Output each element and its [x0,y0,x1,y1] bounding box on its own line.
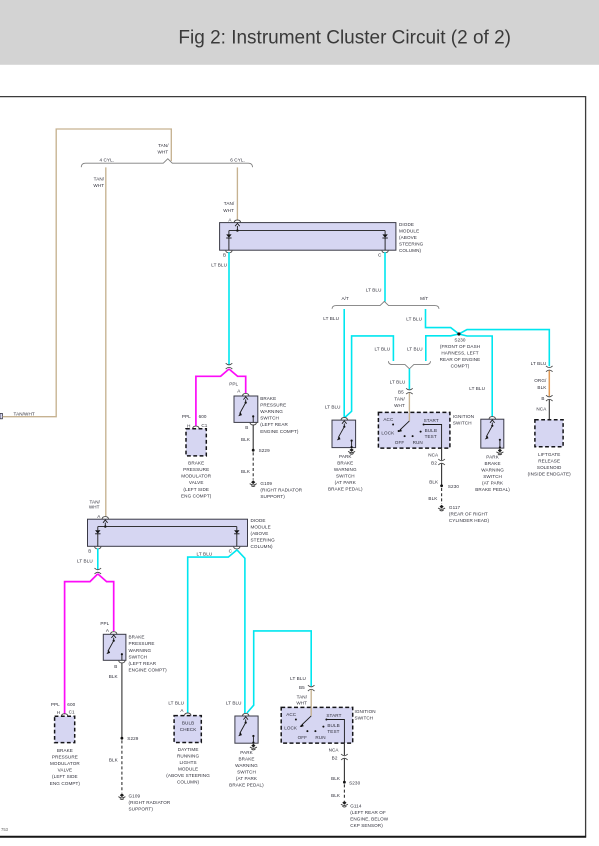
svg-text:BLK: BLK [331,793,341,798]
svg-text:Fig 2: Instrument Cluster Circ: Fig 2: Instrument Cluster Circuit (2 of … [178,27,511,48]
wire LT BLU from park switch junction to merge brace left leg [345,336,394,418]
svg-text:G109: G109 [129,793,141,798]
svg-text:B: B [541,396,544,401]
wire TAN/WHT into ignition switch 2 [296,690,311,708]
wire LT BLU A/T drop to park brake warning switch 1 [323,309,344,417]
wire TAN/WHT 6-cyl drop to diode module 1 pin A [223,167,237,219]
svg-text:(AT PARK: (AT PARK [482,480,504,485]
svg-text:MODULE: MODULE [251,525,271,530]
svg-text:BRAKE PEDAL): BRAKE PEDAL) [229,783,264,788]
svg-text:NCA: NCA [536,407,547,412]
svg-text:MODULE: MODULE [399,228,419,233]
svg-text:BRAKE: BRAKE [57,748,73,753]
wire from ignition switch 1 to connector B2 [428,448,441,460]
ground at park brake warning switch 1 [348,448,355,454]
wire BLK from BPWS1 pin B to splice S229 [241,425,253,450]
svg-text:PPL: PPL [182,414,191,419]
diode D1 (left leg of diode module U1) [223,234,232,257]
connector C200 inline on pin B wire [226,363,233,369]
connector B5 (ignition switch 2) [299,685,315,691]
svg-text:6 CYL.: 6 CYL. [230,157,245,162]
svg-text:(LEFT SIDE: (LEFT SIDE [52,774,78,779]
svg-text:WHT: WHT [93,183,104,188]
svg-text:BULB: BULB [425,428,437,433]
svg-text:TAN/: TAN/ [394,397,405,402]
svg-text:BLK: BLK [241,469,251,474]
svg-text:SUPPORT): SUPPORT) [129,806,154,811]
switch: park brake warning switch 3 [235,713,258,743]
svg-text:A: A [97,514,101,519]
svg-text:B: B [88,548,91,553]
connector B5 (ignition switch 1) [398,388,413,394]
svg-text:BRAKE: BRAKE [188,460,204,465]
svg-text:B5: B5 [299,685,305,690]
svg-text:S230: S230 [454,338,465,343]
node: 4CYL/6CYL option brace [81,157,252,167]
svg-text:OFF: OFF [395,440,405,445]
node: merge brace to ignition switch 1 [388,361,430,369]
wire LT BLU from U2 pin C to park brake warning switch 3 [226,550,245,714]
switch: park brake warning switch 1 [332,418,356,449]
label: diode module U1 name [399,222,424,253]
switch: ignition switch 2 [281,707,353,743]
svg-text:PRESSURE: PRESSURE [183,467,209,472]
svg-text:OFF: OFF [298,735,308,740]
svg-text:B: B [245,425,248,430]
svg-text:(REAR OF RIGHT: (REAR OF RIGHT [449,512,488,517]
svg-text:REAR OF ENGINE: REAR OF ENGINE [440,357,481,362]
diode D4 (right leg of diode module U2) [229,530,241,553]
svg-text:S230: S230 [349,780,360,785]
svg-text:WARNING: WARNING [260,409,283,414]
valve: brake pressure modulator valve 2 [50,714,81,786]
svg-text:LT BLU: LT BLU [290,676,306,681]
svg-text:LT BLU: LT BLU [531,361,547,366]
svg-text:BRAKE PEDAL): BRAKE PEDAL) [475,487,510,492]
svg-text:BULB: BULB [182,721,194,726]
svg-text:DAYTIME: DAYTIME [178,747,199,752]
svg-text:ENG COMPT): ENG COMPT) [181,493,212,498]
svg-text:RUN: RUN [315,735,325,740]
svg-text:A/T: A/T [341,296,349,301]
svg-text:WARNING: WARNING [235,763,258,768]
switch: park brake warning switch 2 [481,417,504,449]
svg-text:LT BLU: LT BLU [390,380,406,385]
svg-text:CKP SENSOR): CKP SENSOR) [350,823,383,828]
wire ORG/BLK segment [534,371,549,397]
svg-text:B: B [114,664,117,669]
ground G109 (2) [118,793,171,811]
wire BLK into liftgate release solenoid [548,400,550,420]
ground G117 [438,505,489,523]
svg-text:B5: B5 [398,389,404,394]
svg-text:IGNITION: IGNITION [453,414,474,419]
svg-text:(LEFT REAR: (LEFT REAR [260,422,288,427]
svg-text:LIFTGATE: LIFTGATE [538,452,560,457]
solenoid: liftgate release solenoid [528,420,571,477]
svg-text:SWITCH: SWITCH [237,770,256,775]
svg-text:PRESSURE: PRESSURE [260,402,286,407]
svg-text:H: H [57,710,60,715]
ground at park brake warning switch 3 [250,744,257,750]
svg-text:G114: G114 [350,804,362,809]
wire BLK from B2 to splice S230 (2) [331,759,344,783]
svg-text:S229: S229 [259,448,270,453]
module: daytime running lights module [166,713,210,785]
svg-text:START: START [326,713,341,718]
node S229 [252,448,270,453]
svg-text:NCA: NCA [329,747,340,752]
label: park brake warning switch 1 name [328,454,363,492]
op: diode module U1 (above steering column) [220,217,396,250]
node S230 (ground splice) [440,484,459,489]
wire BLK from S230 to ground G114 [331,784,344,800]
node S229 (2) [121,736,139,741]
svg-text:TAN/WHT: TAN/WHT [14,411,35,416]
svg-text:COMPT): COMPT) [451,364,470,369]
svg-text:LOCK: LOCK [381,431,395,436]
ground G109 [250,480,303,499]
svg-text:(INSIDE ENDGATE): (INSIDE ENDGATE) [528,472,571,477]
svg-text:A: A [180,708,184,713]
svg-text:PRESSURE: PRESSURE [129,641,155,646]
svg-text:COLUMN): COLUMN) [399,248,422,253]
wire LT BLU from U2 pin B down [77,548,98,569]
svg-text:S229: S229 [127,736,138,741]
wire LT BLU from U1 pin C to A/T-M/T brace [366,252,385,301]
svg-text:ACC: ACC [383,417,394,422]
svg-text:600: 600 [67,702,75,707]
svg-text:WHT: WHT [158,150,169,155]
svg-text:BRAKE PEDAL): BRAKE PEDAL) [328,487,363,492]
svg-text:BRAKE: BRAKE [129,635,145,640]
svg-text:(RIGHT RADIATOR: (RIGHT RADIATOR [260,488,302,493]
svg-text:DIODE: DIODE [399,222,414,227]
diode D2 (right leg of diode module U1) [378,234,388,257]
svg-text:IGNITION: IGNITION [355,709,376,714]
svg-text:BLK: BLK [537,385,547,390]
svg-text:VALVE: VALVE [58,768,73,773]
svg-text:BLK: BLK [241,437,251,442]
svg-text:4 CYL.: 4 CYL. [99,157,114,162]
svg-text:SWITCH: SWITCH [483,474,502,479]
svg-text:600: 600 [199,414,207,419]
wire LT BLU bridge from park switch junction to ignition switch 2 [247,631,311,713]
svg-text:PARK: PARK [240,750,253,755]
svg-text:WARNING: WARNING [334,467,357,472]
svg-text:SWITCH: SWITCH [453,421,472,426]
svg-text:B2: B2 [332,756,338,761]
svg-text:BLK: BLK [428,496,438,501]
svg-text:SOLENOID: SOLENOID [537,465,562,470]
label: ignition switch 1 name [453,414,474,426]
svg-text:LT BLU: LT BLU [366,288,382,293]
svg-text:LT BLU: LT BLU [168,700,184,705]
svg-text:SUPPORT): SUPPORT) [260,494,285,499]
svg-text:G109: G109 [260,481,272,486]
svg-text:LT BLU: LT BLU [469,386,485,391]
svg-text:DIODE: DIODE [251,518,266,523]
svg-text:LT BLU: LT BLU [77,559,93,564]
connector B (liftgate release solenoid) [536,395,552,411]
svg-text:(ABOVE STEERING: (ABOVE STEERING [166,773,210,778]
switch: brake pressure warning switch 2 [103,632,167,673]
op: diode module U2 (above steering column) [88,514,248,546]
node: A/T / M/T option brace [332,296,439,309]
svg-text:ENGINE COMPT): ENGINE COMPT) [260,429,299,434]
svg-text:(LEFT SIDE: (LEFT SIDE [183,487,209,492]
wire BLK from S230 to ground G117 [428,488,441,504]
wire TAN/WHT into ignition switch 1 [394,393,409,413]
svg-text:COLUMN): COLUMN) [251,544,274,549]
svg-text:NCA: NCA [428,452,439,457]
svg-text:TAN/: TAN/ [297,695,308,700]
svg-text:TAN/: TAN/ [94,177,105,182]
svg-text:BRAKE: BRAKE [485,461,501,466]
wire TAN/WHT 4-cyl drop to diode module 2 pin A [89,167,106,516]
svg-text:HARNESS, LEFT: HARNESS, LEFT [441,351,478,356]
svg-text:RUNNING: RUNNING [177,754,199,759]
wire LT BLU from S230 to park brake warning switch 2 [459,334,492,417]
connector inline on U2 pin B wire [95,568,102,574]
valve: brake pressure modulator valve 1 [181,426,212,498]
wire LT BLU M/T drop to splice S230 [406,309,459,334]
svg-text:STEERING: STEERING [251,538,276,543]
svg-text:LT BLU: LT BLU [197,551,213,556]
svg-text:PPL: PPL [100,621,109,626]
label: ignition switch 2 name [355,709,376,721]
label: park brake warning switch 2 name [475,454,510,492]
connector inline (LT BLU / ORG-BLK) [546,366,553,372]
svg-text:BLK: BLK [109,758,119,763]
svg-text:RUN: RUN [413,440,423,445]
svg-text:RELEASE: RELEASE [538,459,560,464]
svg-text:LT BLU: LT BLU [323,316,339,321]
svg-text:ORG/: ORG/ [534,378,547,383]
svg-text:ACC: ACC [286,712,297,717]
svg-text:PARK: PARK [486,454,499,459]
svg-text:(LEFT REAR: (LEFT REAR [129,661,157,666]
svg-text:BLK: BLK [109,674,119,679]
svg-text:C1: C1 [69,709,75,714]
svg-text:(RIGHT RADIATOR: (RIGHT RADIATOR [129,800,171,805]
svg-text:C: C [378,252,382,257]
svg-text:(AT PARK: (AT PARK [335,480,357,485]
svg-text:WARNING: WARNING [129,648,152,653]
svg-text:LT BLU: LT BLU [374,347,390,352]
svg-text:A: A [228,217,232,222]
svg-text:BLK: BLK [429,480,439,485]
svg-text:LIGHTS: LIGHTS [179,760,196,765]
svg-text:WHT: WHT [89,504,100,509]
svg-text:B: B [223,252,226,257]
svg-text:LT BLU: LT BLU [211,263,227,268]
svg-text:LT BLU: LT BLU [407,347,423,352]
switch: ignition switch 1 [378,412,450,448]
label: diode module U2 name [251,518,276,549]
svg-text:TAN/: TAN/ [158,143,169,148]
svg-text:BRAKE: BRAKE [238,757,254,762]
wire BLK from S229 to ground G109 [241,452,253,479]
svg-text:(FRONT OF DASH: (FRONT OF DASH [440,344,480,349]
svg-text:BRAKE: BRAKE [337,461,353,466]
wire TAN/WHT feed from left edge up and across [2,129,171,417]
svg-text:WHT: WHT [296,701,307,706]
wire LT BLU from S230 to merge brace right leg [407,334,459,361]
wire LT BLU from brace to connector B5 [390,369,410,390]
svg-text:LOCK: LOCK [284,726,298,731]
svg-text:WHT: WHT [394,403,405,408]
svg-text:MODULATOR: MODULATOR [50,761,80,766]
svg-text:TEST: TEST [327,729,339,734]
wire PPL split to BPMV2 and BPWS2 [51,574,114,715]
svg-text:TAN/: TAN/ [224,201,235,206]
svg-text:B2: B2 [431,460,437,465]
svg-text:START: START [424,418,439,423]
svg-text:(ABOVE: (ABOVE [399,235,417,240]
wire LT BLU from U1 pin B down [211,252,229,364]
ground at park brake warning switch 2 [496,449,503,455]
wire from ignition switch 2 to connector B2 [329,743,345,755]
switch: brake pressure warning switch 1 [234,393,299,433]
svg-text:SWITCH: SWITCH [355,716,374,721]
svg-text:WARNING: WARNING [481,467,504,472]
svg-text:CYLINDER HEAD): CYLINDER HEAD) [449,518,490,523]
wire LT BLU from U2 pin C to daytime running lights module [168,550,237,713]
node S230 (front of dash harness) [440,332,481,368]
node S230 (2) [343,780,361,785]
wire BLK from BPWS2 pin B to splice S229 [109,663,122,739]
svg-text:(AT PARK: (AT PARK [236,776,258,781]
svg-text:BULB: BULB [327,723,339,728]
svg-text:STEERING: STEERING [399,241,424,246]
label: park brake warning switch 3 name [229,750,264,788]
svg-text:LT BLU: LT BLU [325,404,341,409]
svg-text:S230: S230 [448,484,459,489]
svg-text:PARK: PARK [339,454,352,459]
svg-text:PRESSURE: PRESSURE [52,754,78,759]
svg-text:SWITCH: SWITCH [260,416,279,421]
svg-text:(LEFT REAR OF: (LEFT REAR OF [350,810,386,815]
connector B2 (ignition switch 2) [332,754,348,760]
svg-text:LT BLU: LT BLU [226,700,242,705]
svg-text:753: 753 [1,827,9,832]
svg-text:BLK: BLK [331,776,341,781]
svg-text:MODULE: MODULE [178,767,198,772]
svg-text:WHT: WHT [223,208,234,213]
svg-text:A: A [237,388,241,393]
diode D3 (left leg of diode module U2) [88,530,101,553]
svg-text:PPL: PPL [51,702,60,707]
svg-text:LT BLU: LT BLU [406,317,422,322]
svg-text:CHECK: CHECK [180,727,197,732]
svg-text:BRAKE: BRAKE [260,396,276,401]
svg-text:ENGINE COMPT): ENGINE COMPT) [129,668,168,673]
wire BLK from S229 to ground G109 (2) [109,740,122,792]
svg-text:COLUMN): COLUMN) [177,780,200,785]
svg-text:(ABOVE: (ABOVE [251,531,269,536]
svg-text:H: H [187,424,190,429]
node: feed from instrument cluster (left edge stub) [0,413,2,418]
ground G114 [341,801,389,828]
svg-text:ENG COMPT): ENG COMPT) [50,781,81,786]
svg-text:M/T: M/T [420,296,428,301]
svg-text:VALVE: VALVE [189,480,204,485]
wire PPL split to BPMV1 and BPWS1 [182,369,246,429]
svg-text:C: C [229,548,233,553]
svg-text:ENGINE, BELOW: ENGINE, BELOW [350,817,389,822]
svg-text:G117: G117 [449,505,461,510]
wire LT BLU from S230 to liftgate connector [459,330,549,367]
svg-text:SWITCH: SWITCH [129,654,148,659]
svg-text:C1: C1 [201,423,207,428]
svg-text:PPL: PPL [229,381,238,386]
svg-text:A: A [106,628,110,633]
svg-text:MODULATOR: MODULATOR [181,474,211,479]
svg-text:SWITCH: SWITCH [336,474,355,479]
wire BLK from B2 to splice S230 (ground path) [429,464,441,486]
connector B2 (ignition switch 1) [431,459,445,465]
svg-text:TEST: TEST [425,434,437,439]
